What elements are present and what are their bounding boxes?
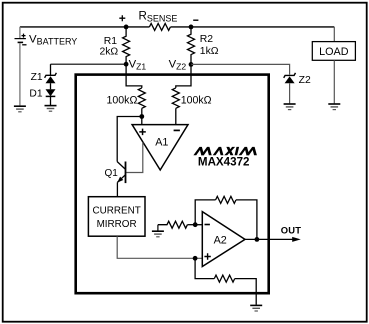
wire A1 output to Q1 base (126, 142, 143, 172)
transistor Q1 (117, 162, 125, 197)
diode D1 (46, 89, 56, 105)
svg-text:Q1: Q1 (105, 168, 119, 179)
svg-text:R2: R2 (200, 34, 214, 45)
ground (Z2) (284, 104, 296, 110)
resistor R2 (188, 27, 195, 65)
ground (LOAD) (328, 104, 340, 110)
op-amp A1 (132, 125, 188, 170)
wire node to Q1 collector (117, 117, 142, 162)
svg-text:A1: A1 (155, 137, 168, 149)
resistor ground to A2 inverting input (158, 221, 187, 228)
svg-text:MIRROR: MIRROR (97, 219, 137, 230)
wire rail to LOAD (333, 27, 335, 42)
IC boundary box MAX4372 (76, 75, 269, 294)
svg-text:Z1: Z1 (31, 72, 43, 83)
plus sign (RSENSE left terminal) (119, 15, 125, 21)
ground (battery) (14, 106, 26, 112)
svg-text:OUT: OUT (281, 224, 301, 235)
svg-text:Z2: Z2 (299, 75, 311, 86)
ground (below IC box) (250, 305, 262, 311)
svg-text:CURRENT: CURRENT (92, 206, 140, 217)
resistor A2 noninverting to ground (214, 275, 234, 282)
wire top rail battery to RSENSE (20, 26, 150, 28)
wire 100k right to A1 inverting input (175, 108, 177, 125)
wire LOAD to ground (333, 60, 335, 103)
minus sign (RSENSE right terminal) (193, 19, 198, 21)
wire A2 inverting node up to feedback resistor (195, 200, 215, 225)
op-amp A2 (202, 212, 245, 267)
svg-text:LOAD: LOAD (319, 46, 349, 58)
wire current mirror to A2 noninverting input (117, 236, 202, 258)
junction node A2 noninverting input (193, 256, 198, 261)
node VZ1 (124, 62, 129, 67)
LOAD box (312, 42, 355, 61)
junction node above A1 noninverting input (139, 114, 144, 119)
junction node A2 output (255, 237, 260, 242)
resistor 100k right (172, 88, 179, 108)
svg-text:100kΩ: 100kΩ (181, 94, 212, 106)
svg-text:2kΩ: 2kΩ (99, 46, 118, 57)
svg-text:1kΩ: 1kΩ (200, 46, 219, 57)
resistor 100k left (138, 88, 145, 108)
MAXIM logo (193, 147, 258, 155)
svg-text:A2: A2 (214, 234, 227, 246)
wire top rail RSENSE to LOAD corner (171, 26, 335, 28)
zener diode Z1 (45, 64, 57, 89)
wire VZ2 down with jog (176, 64, 191, 88)
wire resistor to A2 inverting input (187, 224, 202, 226)
resistor RSENSE (149, 23, 170, 30)
junction node RSENSE left (124, 25, 129, 30)
feedback resistor A2 (216, 196, 236, 203)
resistor R1 (123, 27, 130, 64)
zener diode Z2 (284, 73, 296, 104)
wire 100k left to A1 noninverting input (141, 108, 143, 125)
wire VZ1 down with jog (126, 64, 142, 88)
wire feedback resistor to A2 output node (236, 200, 257, 240)
svg-text:MAX4372: MAX4372 (198, 156, 250, 169)
junction node A2 inverting input (193, 222, 198, 227)
svg-text:D1: D1 (29, 88, 42, 99)
wire A2 noninverting node down (195, 258, 214, 278)
battery VBATTERY (15, 27, 27, 106)
ground (A2 inverting resistor) (152, 225, 164, 237)
svg-text:100kΩ: 100kΩ (106, 94, 137, 106)
junction node RSENSE right (189, 25, 194, 30)
wire VZ1 to Z1 (51, 63, 127, 65)
wire VZ2 to Z2 (191, 64, 290, 74)
ground (Z1/D1) (45, 106, 57, 112)
current mirror box (88, 197, 145, 237)
wire A2 output to OUT (245, 238, 293, 240)
wire resistor to bottom ground (235, 279, 257, 305)
OUT arrowhead (292, 237, 301, 242)
node VZ2 (189, 62, 194, 67)
